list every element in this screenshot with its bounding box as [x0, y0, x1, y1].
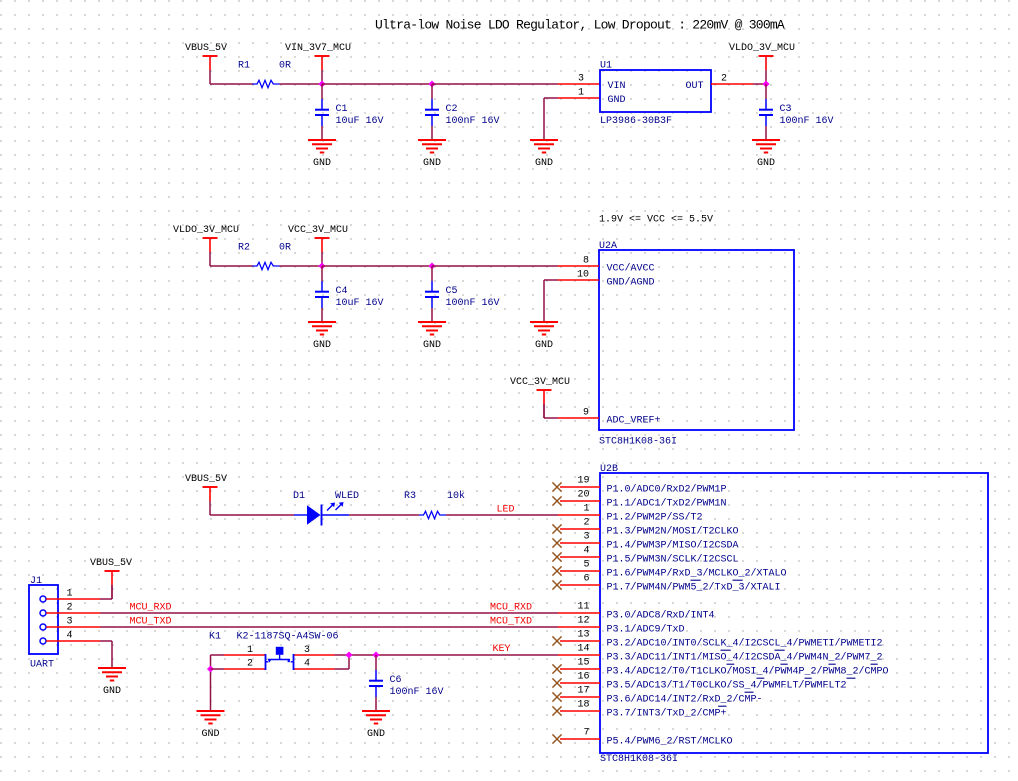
wire VBUS_5V to R1	[210, 83, 253, 85]
svg-text:LED: LED	[497, 505, 515, 516]
power flag VBUS_5V (LED)	[203, 487, 218, 515]
U2A pin 10 stub GND/AGND	[558, 279, 599, 281]
junction K1 outputs	[345, 651, 352, 658]
power flag VBUS_5V (top left)	[203, 56, 218, 84]
IC U2A body	[599, 250, 794, 430]
svg-text:GND: GND	[367, 729, 385, 740]
wire power to ADC_VREF corner	[543, 404, 545, 418]
svg-text:0R: 0R	[279, 61, 291, 72]
wire VLDO to R2	[210, 265, 253, 267]
wire K1 left to ground	[210, 655, 212, 711]
svg-text:2: 2	[67, 603, 73, 614]
svg-text:P3.7/INT3/TxD_2/CMP+: P3.7/INT3/TxD_2/CMP+	[607, 708, 727, 720]
svg-text:GND: GND	[423, 340, 441, 351]
svg-text:10k: 10k	[447, 490, 465, 502]
switch K1 pin 2 stub	[224, 668, 266, 670]
J1 pin 4 circle and stub	[40, 638, 46, 644]
wire U2A GND pin	[544, 279, 558, 281]
svg-text:9: 9	[583, 408, 589, 419]
svg-text:GND: GND	[313, 158, 331, 169]
ground under U1	[530, 140, 558, 169]
svg-text:R2: R2	[238, 243, 250, 254]
svg-text:3: 3	[583, 532, 589, 543]
svg-text:VBUS_5V: VBUS_5V	[185, 474, 227, 485]
svg-text:P3.6/ADC14/INT2/RxD_2/CMP-: P3.6/ADC14/INT2/RxD_2/CMP-	[607, 694, 763, 706]
resistor R2 0R	[253, 262, 280, 269]
wire U1 OUT to VLDO node	[753, 83, 766, 85]
svg-text:P3.0/ADC8/RxD/INT4: P3.0/ADC8/RxD/INT4	[607, 610, 715, 622]
junction at C5	[428, 262, 435, 269]
svg-text:C6: C6	[390, 675, 402, 686]
svg-text:P1.7/PWM4N/PWM5_2/TxD_3/XTALI: P1.7/PWM4N/PWM5_2/TxD_3/XTALI	[607, 582, 781, 594]
ground under C2	[418, 140, 446, 169]
power flag VLDO_3V_MCU	[759, 56, 774, 84]
wire K1 pin4 corner	[335, 668, 350, 670]
no-connect flag pin 3	[552, 538, 561, 547]
junction at C2	[428, 80, 435, 87]
capacitor C4 10uF	[315, 266, 329, 322]
svg-text:GND: GND	[201, 729, 219, 740]
svg-text:P1.4/PWM3P/MISO/I2CSDA: P1.4/PWM3P/MISO/I2CSDA	[607, 540, 739, 552]
resistor R1 0R	[253, 80, 280, 87]
J1 pin 1 circle and stub	[40, 596, 46, 602]
wire power down to J1 pin 1	[111, 585, 113, 599]
U2B pin 3 stub, name P1.4	[560, 542, 600, 544]
U2B pin 6 stub, name P1.7	[560, 584, 600, 586]
power flag VIN_3V7_MCU	[315, 56, 330, 84]
svg-text:1: 1	[67, 589, 73, 600]
svg-text:10uF 16V: 10uF 16V	[336, 116, 384, 127]
svg-text:P3.4/ADC12/T0/T1CLKO/MOSI_4/PW: P3.4/ADC12/T0/T1CLKO/MOSI_4/PWM4P_2/PWM8…	[607, 666, 889, 678]
svg-text:Ultra-low Noise LDO Regulator,: Ultra-low Noise LDO Regulator, Low Dropo…	[375, 18, 785, 33]
svg-text:P1.1/ADC1/TxD2/PWM1N: P1.1/ADC1/TxD2/PWM1N	[607, 498, 727, 510]
junction VCC at C4	[318, 262, 325, 269]
svg-text:VLDO_3V_MCU: VLDO_3V_MCU	[173, 225, 239, 236]
svg-text:3: 3	[304, 645, 310, 656]
U2A pin 8 stub VCC/AVCC	[558, 265, 599, 267]
svg-text:100nF 16V: 100nF 16V	[446, 298, 500, 309]
svg-text:R3: R3	[404, 491, 416, 502]
wire J1 pin4 corner	[100, 640, 112, 642]
svg-text:K2-1187SQ-A4SW-06: K2-1187SQ-A4SW-06	[237, 632, 339, 643]
no-connect flag pin 5	[552, 566, 561, 575]
U2B pin 13 stub, name P3.2	[560, 640, 600, 642]
power flag VCC_3V_MCU at ADC_VREF	[537, 390, 552, 418]
svg-text:100nF 16V: 100nF 16V	[390, 687, 444, 698]
wire C2 node to U1 VIN	[432, 83, 558, 85]
svg-text:15: 15	[577, 658, 589, 669]
svg-text:GND: GND	[423, 158, 441, 169]
svg-text:UART: UART	[30, 660, 54, 671]
svg-text:P1.2/PWM2P/SS/T2: P1.2/PWM2P/SS/T2	[607, 512, 703, 524]
wire to U2A pin 9	[544, 417, 558, 419]
op-amp U1 pin 3 stub	[558, 83, 600, 85]
svg-text:K1: K1	[209, 632, 221, 643]
svg-text:VCC/AVCC: VCC/AVCC	[607, 263, 655, 275]
overbars on active-low signal names	[691, 580, 878, 706]
svg-text:VCC_3V_MCU: VCC_3V_MCU	[288, 225, 348, 236]
ground under K1	[197, 711, 225, 740]
svg-text:3: 3	[67, 617, 73, 628]
junction at C6	[372, 651, 379, 658]
svg-text:12: 12	[577, 616, 589, 627]
ground under C5	[418, 322, 446, 351]
svg-text:GND/AGND: GND/AGND	[607, 277, 655, 289]
svg-text:4: 4	[67, 631, 73, 642]
U2B pin 7 stub, name P5.4	[560, 738, 600, 740]
svg-text:VIN_3V7_MCU: VIN_3V7_MCU	[285, 43, 351, 54]
svg-text:100nF 16V: 100nF 16V	[780, 116, 834, 127]
svg-text:R1: R1	[238, 61, 250, 72]
svg-text:U2A: U2A	[599, 241, 617, 252]
J1 pin 2 circle and stub	[40, 610, 46, 616]
wire K1 pin1 corner	[211, 654, 225, 656]
power flag VBUS_5V (J1)	[105, 571, 120, 599]
svg-text:P3.1/ADC9/TxD: P3.1/ADC9/TxD	[607, 624, 685, 636]
no-connect flag pin 20	[552, 496, 561, 505]
U2B pin 12 stub, name P3.1	[558, 626, 600, 628]
U1 pin 2 stub	[711, 83, 753, 85]
wire K1 pin4 up to KEY net	[348, 655, 350, 669]
svg-text:8: 8	[583, 256, 589, 267]
U2B pin 14 stub, name P3.3	[558, 654, 600, 656]
no-connect flag pin 18	[552, 706, 561, 715]
switch K1 pin 4 stub	[294, 668, 335, 670]
svg-text:GND: GND	[313, 340, 331, 351]
svg-text:5: 5	[583, 560, 589, 571]
ground under C6	[362, 711, 390, 740]
wire J1 pin1 corner	[100, 598, 112, 600]
svg-text:3: 3	[578, 74, 584, 85]
svg-text:MCU_RXD: MCU_RXD	[130, 603, 172, 614]
svg-text:C2: C2	[446, 104, 458, 115]
svg-text:GND: GND	[535, 158, 553, 169]
svg-text:GND: GND	[757, 158, 775, 169]
LED D1 symbol	[294, 502, 349, 526]
U2B pin 11 stub, name P3.0	[558, 612, 600, 614]
ground under C1	[308, 140, 336, 169]
wire down to ground	[543, 280, 545, 322]
svg-text:VBUS_5V: VBUS_5V	[90, 558, 132, 569]
svg-text:100nF 16V: 100nF 16V	[446, 116, 500, 127]
wire U1 GND pin to ground	[544, 97, 558, 99]
svg-text:11: 11	[577, 602, 589, 613]
svg-text:7: 7	[583, 728, 589, 739]
junction K1 pin2	[207, 665, 214, 672]
svg-text:C5: C5	[446, 286, 458, 297]
svg-text:4: 4	[304, 659, 310, 670]
wire R2 to VCC node	[280, 265, 323, 267]
no-connect flag pin 7	[552, 734, 561, 743]
svg-text:P3.2/ADC10/INT0/SCLK_4/I2CSCL_: P3.2/ADC10/INT0/SCLK_4/I2CSCL_4/PWMETI/P…	[607, 638, 883, 650]
svg-text:VCC_3V_MCU: VCC_3V_MCU	[510, 377, 570, 388]
J1 pin 3 circle and stub	[40, 624, 46, 630]
svg-text:10uF 16V: 10uF 16V	[336, 298, 384, 309]
svg-text:19: 19	[577, 476, 589, 487]
capacitor C6 100nF	[369, 655, 383, 711]
wire VIN node to C2 node	[322, 83, 432, 85]
svg-text:GND: GND	[103, 686, 121, 697]
switch K1 pin 1 stub	[224, 654, 266, 656]
switch K1 symbol body	[266, 647, 294, 670]
wire D1 cathode to R3	[349, 514, 419, 516]
capacitor C2 100nF	[425, 84, 439, 140]
wire J1 pin4 to ground	[111, 641, 113, 668]
capacitor C5 100nF	[425, 266, 439, 322]
svg-text:P3.3/ADC11/INT1/MISO_4/I2CSDA_: P3.3/ADC11/INT1/MISO_4/I2CSDA_4/PWM4N_2/…	[607, 652, 883, 664]
resistor R3 10k	[419, 511, 446, 518]
ground under U2A pin 10	[530, 322, 558, 351]
svg-text:0R: 0R	[279, 243, 291, 254]
no-connect flag pin 19	[552, 482, 561, 491]
svg-text:MCU_TXD: MCU_TXD	[130, 617, 172, 628]
svg-text:VLDO_3V_MCU: VLDO_3V_MCU	[729, 43, 795, 54]
ground under J1	[98, 668, 126, 697]
svg-text:6: 6	[583, 574, 589, 585]
U2B pin 4 stub, name P1.5	[560, 556, 600, 558]
no-connect flag pin 6	[552, 580, 561, 589]
svg-text:16: 16	[577, 672, 589, 683]
capacitor C3 100nF	[759, 84, 773, 140]
U2B pin 16 stub, name P3.5	[560, 682, 600, 684]
svg-text:1: 1	[583, 504, 589, 515]
svg-text:P1.5/PWM3N/SCLK/I2CSCL: P1.5/PWM3N/SCLK/I2CSCL	[607, 554, 739, 566]
svg-text:P3.5/ADC13/T1/T0CLKO/SS_4/PWMF: P3.5/ADC13/T1/T0CLKO/SS_4/PWMFLT/PWMFLT2	[607, 680, 847, 692]
U1 pin 1 stub	[558, 97, 600, 99]
IC U2B body	[600, 473, 988, 753]
U2B pin 18 stub, name P3.7	[560, 710, 600, 712]
U2B pin 2 stub, name P1.3	[560, 528, 600, 530]
power flag VLDO_3V_MCU (section 2)	[203, 238, 218, 266]
svg-text:20: 20	[577, 490, 589, 501]
svg-text:4: 4	[583, 546, 589, 557]
wire net MCU_RXD	[100, 612, 558, 614]
svg-text:1.9V <= VCC <= 5.5V: 1.9V <= VCC <= 5.5V	[599, 215, 713, 226]
ground under C3	[752, 140, 780, 169]
IC U1 LP3986 body	[600, 70, 711, 112]
svg-text:ADC_VREF+: ADC_VREF+	[607, 416, 661, 427]
wire R1 to VIN node	[280, 83, 323, 85]
junction node VIN_3V7_MCU at C1	[318, 80, 325, 87]
wire K1 pin2 corner	[211, 668, 225, 670]
svg-text:P5.4/PWM6_2/RST/MCLKO: P5.4/PWM6_2/RST/MCLKO	[607, 736, 733, 748]
svg-text:STC8H1K08-36I: STC8H1K08-36I	[599, 437, 677, 448]
svg-text:MCU_RXD: MCU_RXD	[490, 603, 532, 614]
svg-text:2: 2	[583, 518, 589, 529]
svg-text:17: 17	[577, 686, 589, 697]
no-connect flag pin 2	[552, 524, 561, 533]
no-connect flag pin 15	[552, 664, 561, 673]
ground under C4	[308, 322, 336, 351]
svg-text:P1.6/PWM4P/RxD_3/MCLKO_2/XTALO: P1.6/PWM4P/RxD_3/MCLKO_2/XTALO	[607, 568, 787, 580]
wire net KEY to U2B pin 14	[335, 654, 559, 656]
svg-text:GND: GND	[535, 340, 553, 351]
junction VLDO at C3	[762, 80, 769, 87]
svg-text:1: 1	[578, 88, 584, 99]
switch K1 pin 3 stub	[294, 654, 335, 656]
no-connect flag pin 16	[552, 678, 561, 687]
svg-text:U1: U1	[600, 61, 612, 72]
svg-text:1: 1	[247, 645, 253, 656]
wire VBUS to D1 anode	[210, 514, 294, 516]
svg-text:KEY: KEY	[493, 644, 511, 655]
U2A pin 9 stub ADC_VREF+	[558, 417, 599, 419]
power flag VCC_3V_MCU	[315, 238, 330, 266]
no-connect flag pin 4	[552, 552, 561, 561]
svg-text:D1: D1	[293, 491, 305, 502]
U2B pin 19 stub, name P1.0	[560, 486, 600, 488]
svg-text:VIN: VIN	[608, 81, 626, 92]
wire VCC node to C5	[322, 265, 432, 267]
svg-text:14: 14	[577, 644, 589, 655]
connector J1 body	[29, 585, 58, 654]
svg-text:18: 18	[577, 700, 589, 711]
no-connect flag pin 17	[552, 692, 561, 701]
capacitor C1 10uF	[315, 84, 329, 140]
svg-text:OUT: OUT	[685, 81, 703, 92]
svg-text:GND: GND	[608, 95, 626, 106]
U2B pin 17 stub, name P3.6	[560, 696, 600, 698]
svg-text:C1: C1	[336, 104, 348, 115]
svg-text:C4: C4	[336, 286, 348, 297]
svg-text:10: 10	[577, 270, 589, 281]
svg-text:2: 2	[247, 659, 253, 670]
svg-text:U2B: U2B	[600, 464, 618, 475]
svg-text:C3: C3	[780, 104, 792, 115]
svg-text:LP3986-30B3F: LP3986-30B3F	[600, 116, 672, 127]
U2B pin 1 stub, name P1.2	[558, 514, 600, 516]
svg-text:STC8H1K08-36I: STC8H1K08-36I	[600, 754, 678, 765]
U2B pin 15 stub, name P3.4	[560, 668, 600, 670]
wire C5 node to U2A pin 8	[432, 265, 558, 267]
wire down to ground	[543, 98, 545, 140]
U2B pin 5 stub, name P1.6	[560, 570, 600, 572]
svg-text:2: 2	[721, 74, 727, 85]
svg-text:P1.0/ADC0/RxD2/PWM1P: P1.0/ADC0/RxD2/PWM1P	[607, 484, 727, 496]
svg-text:WLED: WLED	[335, 491, 359, 502]
svg-text:VBUS_5V: VBUS_5V	[185, 43, 227, 54]
svg-text:13: 13	[577, 630, 589, 641]
U2B pin 20 stub, name P1.1	[560, 500, 600, 502]
svg-text:P1.3/PWM2N/MOSI/T2CLKO: P1.3/PWM2N/MOSI/T2CLKO	[607, 526, 739, 538]
no-connect flag pin 13	[552, 636, 561, 645]
svg-text:MCU_TXD: MCU_TXD	[490, 617, 532, 628]
wire R3 to U2B pin 1, net LED	[446, 514, 558, 516]
wire net MCU_TXD	[100, 626, 558, 628]
